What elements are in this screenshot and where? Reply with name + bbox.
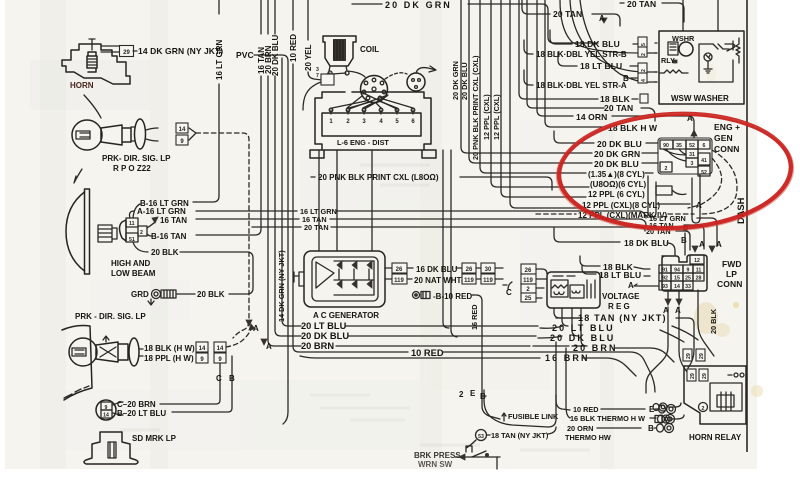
svg-text:20 BRN: 20 BRN bbox=[301, 341, 334, 351]
svg-text:16 LT GRN: 16 LT GRN bbox=[215, 39, 224, 80]
plug terminals bbox=[329, 108, 333, 112]
svg-text:14: 14 bbox=[199, 346, 206, 352]
wire 20 YEL vertical bbox=[308, 0, 322, 80]
horn body bbox=[62, 44, 130, 84]
svg-text:12 PPL (6 CYL): 12 PPL (6 CYL) bbox=[588, 190, 645, 199]
svg-text:12 PPL (CXL): 12 PPL (CXL) bbox=[492, 94, 501, 140]
wire 20 TAN long bbox=[252, 226, 301, 228]
svg-text:26: 26 bbox=[466, 267, 473, 273]
terminal boxes 14 / 9 bbox=[176, 123, 188, 133]
sd mrk connector circle bbox=[96, 400, 116, 420]
svg-text:16 DK BLU: 16 DK BLU bbox=[416, 265, 458, 274]
wire 16 BRN long bbox=[300, 356, 540, 358]
spark plug wires fanning bbox=[332, 99, 413, 108]
node dot junction bbox=[482, 390, 548, 427]
svg-text:FWD: FWD bbox=[722, 259, 742, 269]
contact points bbox=[713, 44, 729, 49]
wires down from fwd conn bbox=[646, 307, 668, 393]
svg-text:A: A bbox=[696, 201, 702, 210]
inline fuse B-10 RED bbox=[413, 292, 420, 299]
curves feeding 29 boxes bbox=[660, 326, 698, 342]
distributor cap bbox=[361, 76, 388, 103]
svg-text:18 DK BLU: 18 DK BLU bbox=[575, 39, 620, 49]
svg-text:14: 14 bbox=[179, 127, 186, 133]
wire to 20 TAN row bbox=[527, 0, 604, 108]
generator terminal lug left bbox=[294, 272, 304, 286]
relay inner contact box bbox=[710, 383, 742, 411]
svg-text:COIL: COIL bbox=[360, 45, 379, 54]
voltage reg box bbox=[547, 272, 600, 308]
leader from horn to park lamp bbox=[84, 95, 101, 118]
svg-text:14: 14 bbox=[674, 284, 680, 290]
svg-text:16 BLK THERMO H W: 16 BLK THERMO H W bbox=[570, 414, 645, 423]
conn pigtail bracket bbox=[648, 174, 700, 223]
svg-text:L-6 ENG - DIST: L-6 ENG - DIST bbox=[337, 138, 389, 147]
wire right pair verticals bbox=[443, 150, 449, 328]
wire 20 DK BLU vertical bbox=[275, 0, 301, 336]
reflector inner block bbox=[98, 225, 117, 242]
cell 12 bbox=[690, 255, 704, 264]
relay coil bbox=[717, 395, 734, 407]
annotation red ellipse bbox=[554, 108, 796, 235]
svg-text:20 LT BLU: 20 LT BLU bbox=[552, 323, 615, 333]
svg-text:ENG +: ENG + bbox=[714, 122, 740, 132]
svg-text:18 BLK (H W): 18 BLK (H W) bbox=[144, 344, 195, 353]
connector boxes 29 29 above horn relay bbox=[683, 349, 692, 361]
svg-text:29: 29 bbox=[686, 353, 692, 359]
svg-text:A: A bbox=[599, 14, 605, 23]
wire 20 LT BLU inner vertical bbox=[282, 58, 301, 326]
wire 18 TAN NY JKT row bbox=[556, 317, 582, 319]
svg-text:HIGH AND: HIGH AND bbox=[111, 259, 150, 268]
wire 20 TAN top-right corner bbox=[620, 2, 624, 4]
svg-text:18 TAN (NY JKT): 18 TAN (NY JKT) bbox=[491, 431, 549, 440]
wire 20 PNK BLK PRINT CXL L80 bbox=[311, 176, 315, 178]
svg-text:PRK - DIR. SIG. LP: PRK - DIR. SIG. LP bbox=[75, 312, 146, 321]
svg-text:A: A bbox=[716, 240, 722, 249]
svg-text:20 ORN: 20 ORN bbox=[567, 424, 593, 433]
svg-text:5: 5 bbox=[641, 43, 647, 46]
svg-text:51: 51 bbox=[129, 237, 135, 243]
svg-text:20 YEL: 20 YEL bbox=[304, 44, 313, 71]
node A arrowhead on dashed bbox=[246, 320, 252, 326]
svg-text:E: E bbox=[470, 389, 476, 398]
svg-text:HORN RELAY: HORN RELAY bbox=[689, 433, 742, 442]
sd mrk lamp body bbox=[84, 432, 138, 464]
diode bridge bbox=[337, 261, 372, 269]
svg-text:R P O Z22: R P O Z22 bbox=[113, 164, 151, 173]
leader tick bbox=[74, 169, 82, 183]
stator fan bbox=[316, 262, 334, 288]
dashed harness run to the right bbox=[196, 133, 249, 338]
svg-text:29: 29 bbox=[702, 373, 708, 379]
node A above conn bbox=[691, 130, 697, 136]
svg-text:14 DK GRN (NY JKT): 14 DK GRN (NY JKT) bbox=[277, 250, 286, 322]
svg-text:12: 12 bbox=[694, 258, 700, 264]
svg-text:CONN: CONN bbox=[714, 144, 739, 154]
svg-text:30: 30 bbox=[485, 267, 492, 273]
node A top bbox=[601, 18, 607, 23]
oil pressure sender circle bbox=[407, 73, 425, 91]
wire coil to distributor bbox=[347, 71, 365, 77]
svg-text:20 DK GRN: 20 DK GRN bbox=[451, 61, 460, 100]
svg-text:2: 2 bbox=[702, 406, 705, 412]
svg-text:119: 119 bbox=[464, 278, 474, 284]
svg-text:20 DK BLU: 20 DK BLU bbox=[271, 34, 280, 76]
svg-text:C–20 BRN: C–20 BRN bbox=[117, 400, 156, 409]
svg-text:18 TAN (NY JKT): 18 TAN (NY JKT) bbox=[578, 313, 667, 323]
connector pair 26/119 bbox=[392, 263, 407, 273]
svg-text:18 DK BLU: 18 DK BLU bbox=[624, 238, 669, 248]
coil body bbox=[323, 36, 356, 66]
wire 16 TAN w/ A arrow bbox=[147, 222, 155, 228]
svg-text:LP: LP bbox=[726, 269, 737, 279]
node A flags above fwd bbox=[692, 246, 698, 252]
svg-text:WSW WASHER: WSW WASHER bbox=[671, 94, 729, 103]
svg-text:31: 31 bbox=[689, 152, 695, 158]
wire PVC to 14 DK GRN vertical bbox=[254, 55, 288, 424]
svg-text:12 PPL (CXL)(8 CYL): 12 PPL (CXL)(8 CYL) bbox=[582, 201, 660, 210]
svg-text:26: 26 bbox=[525, 268, 532, 274]
svg-text:3: 3 bbox=[691, 161, 694, 167]
wire 16 DK BLU bbox=[408, 267, 413, 269]
svg-text:11: 11 bbox=[129, 221, 135, 227]
svg-text:HORN: HORN bbox=[70, 81, 94, 90]
engine terminal strip bbox=[322, 113, 421, 136]
horn terminal post bbox=[89, 39, 95, 50]
svg-text:GRD: GRD bbox=[131, 290, 149, 299]
connector pair mid bbox=[462, 263, 476, 273]
svg-text:18 PPL (H W): 18 PPL (H W) bbox=[144, 354, 194, 363]
wire 20 BRN vertical bbox=[268, 0, 301, 346]
svg-text:20 DK BLU: 20 DK BLU bbox=[597, 139, 642, 149]
svg-text:20 PNK BLK PRINT CXL (L8OΩ): 20 PNK BLK PRINT CXL (L8OΩ) bbox=[318, 173, 439, 182]
wire 16 LT GRN vertical bbox=[196, 0, 219, 202]
wire B-16 LT GRN bbox=[133, 204, 140, 218]
wire to 14 ORN row bbox=[537, 0, 573, 116]
wire label 14 DK GRN bbox=[133, 50, 137, 52]
svg-text:20 NAT WHT-: 20 NAT WHT- bbox=[414, 276, 464, 285]
park bulb bbox=[69, 338, 97, 366]
svg-text:14 DK GRN (NY JKT): 14 DK GRN (NY JKT) bbox=[138, 46, 223, 56]
wires between pairs bbox=[476, 268, 503, 279]
ground lug symbol bbox=[152, 290, 161, 299]
svg-text:GEN: GEN bbox=[714, 133, 733, 143]
svg-text:29: 29 bbox=[690, 373, 696, 379]
A A flags under fwd conn bbox=[667, 291, 669, 305]
svg-text:(1.35▲)(8 CYL): (1.35▲)(8 CYL) bbox=[588, 170, 645, 179]
wire A-16 LT GRN bbox=[130, 211, 135, 218]
svg-text:41: 41 bbox=[701, 158, 707, 164]
svg-text:-B-10 RED: -B-10 RED bbox=[433, 292, 472, 301]
svg-text:14: 14 bbox=[103, 413, 109, 419]
svg-text:FUSIBLE LINK: FUSIBLE LINK bbox=[508, 412, 559, 421]
svg-text:2: 2 bbox=[641, 69, 647, 72]
wsw input pins bbox=[655, 43, 657, 82]
resistor right bbox=[736, 41, 740, 59]
wire eng to gen 1 bbox=[318, 150, 320, 251]
bulb socket bbox=[96, 342, 128, 362]
svg-text:7: 7 bbox=[316, 73, 319, 79]
wire to 18 BLK row bbox=[519, 0, 598, 99]
svg-text:20 LT BLU: 20 LT BLU bbox=[301, 321, 347, 331]
fwd lp conn outline bbox=[662, 255, 707, 291]
node A flag mid-left bbox=[261, 339, 267, 345]
svg-text:16 TAN: 16 TAN bbox=[160, 216, 187, 225]
svg-text:2: 2 bbox=[459, 390, 464, 399]
socket spring bbox=[100, 347, 116, 357]
svg-text:A: A bbox=[266, 342, 272, 351]
wire C-20 BRN bbox=[113, 402, 123, 405]
gen output pins bbox=[385, 268, 392, 279]
svg-text:R E G: R E G bbox=[608, 302, 630, 311]
wsw washer box bbox=[659, 31, 744, 104]
wire 20 DK GRN top horizontal bbox=[352, 3, 382, 5]
wire 12 PPL CXL 8CYL vertical bbox=[510, 0, 580, 208]
wire 18 LT BLU bbox=[558, 52, 577, 66]
svg-text:18 LT BLU: 18 LT BLU bbox=[580, 61, 622, 71]
svg-text:B-16 TAN: B-16 TAN bbox=[151, 232, 187, 241]
coil winding dark bar bbox=[333, 39, 346, 61]
relay coil bbox=[664, 70, 682, 73]
wire 18 BLK DBL YEL STR-A bbox=[524, 70, 533, 85]
svg-text:2: 2 bbox=[140, 230, 143, 236]
label FUSIBLE LINK bbox=[502, 413, 506, 421]
svg-text:A C GENERATOR: A C GENERATOR bbox=[313, 311, 379, 320]
wire 20 DK BLU vertical bbox=[469, 0, 592, 163]
connector stack x522 bbox=[521, 264, 536, 274]
wire from 53 down to switch bbox=[466, 440, 476, 448]
svg-text:28: 28 bbox=[696, 276, 702, 282]
eng gen connector grid bbox=[658, 138, 712, 174]
svg-text:PVC: PVC bbox=[236, 50, 254, 60]
svg-text:52: 52 bbox=[689, 143, 695, 149]
wire eng to gen 3 bbox=[371, 150, 373, 251]
svg-text:20 BLK: 20 BLK bbox=[709, 308, 718, 334]
wire 20 PNK BLK PRINT CXL vertical bbox=[480, 0, 586, 173]
dash line bbox=[746, 0, 748, 452]
wires connector to coil bbox=[327, 73, 346, 74]
svg-text:12 PPL (CXL): 12 PPL (CXL) bbox=[482, 94, 491, 140]
fusible link brace bbox=[548, 395, 556, 427]
harness to A node dashed bbox=[226, 327, 252, 347]
svg-text:A: A bbox=[675, 306, 681, 315]
svg-text:6: 6 bbox=[703, 143, 706, 149]
svg-text:LOW BEAM: LOW BEAM bbox=[111, 269, 156, 278]
svg-text:A: A bbox=[628, 281, 634, 290]
connector pair right bbox=[481, 263, 495, 273]
svg-text:20 TAN: 20 TAN bbox=[604, 103, 633, 113]
svg-text:29: 29 bbox=[123, 50, 130, 56]
wire to 18 BLK HW row bbox=[545, 0, 607, 127]
wires stack to reg bbox=[536, 269, 547, 298]
wire 12 PPL CXL vertical bbox=[491, 0, 589, 187]
wire 18 BLK HW bbox=[139, 348, 143, 350]
node A into fwd bbox=[634, 284, 648, 286]
prk dir sig lp bulb bbox=[72, 120, 102, 150]
svg-text:VOLTAGE: VOLTAGE bbox=[602, 292, 640, 301]
svg-text:20 TAN: 20 TAN bbox=[304, 223, 329, 232]
sender wire with arrow bbox=[416, 66, 436, 73]
reg bottom pins bbox=[554, 308, 582, 318]
svg-text:10 RED: 10 RED bbox=[411, 348, 444, 358]
reg internals bbox=[551, 280, 568, 297]
wire 12 PPL CXL MARK IV dashed bbox=[536, 213, 576, 215]
headlamp reflector arc bbox=[66, 192, 85, 271]
inner circuit bbox=[699, 41, 735, 82]
conn internal wires bbox=[663, 149, 686, 161]
wire 12 PPL vertical bbox=[501, 0, 586, 197]
wire 20 BLK bbox=[133, 242, 148, 252]
connector box 29 bbox=[120, 46, 134, 57]
svg-text:93: 93 bbox=[662, 284, 668, 290]
svg-text:20 DK BLU: 20 DK BLU bbox=[594, 159, 639, 169]
socket disc bbox=[135, 119, 146, 149]
wires C and B down bbox=[220, 356, 232, 400]
svg-text:29: 29 bbox=[699, 353, 705, 359]
wire from connector down-left bbox=[303, 82, 321, 110]
fender bracket bbox=[62, 326, 92, 401]
svg-text:SD MRK LP: SD MRK LP bbox=[132, 434, 177, 443]
svg-text:25: 25 bbox=[525, 296, 532, 302]
svg-text:52: 52 bbox=[701, 170, 707, 176]
svg-text:C: C bbox=[506, 288, 512, 297]
svg-text:2: 2 bbox=[665, 166, 668, 172]
svg-text:20 DK GRN: 20 DK GRN bbox=[594, 149, 640, 159]
headlamp lens bar bbox=[85, 189, 90, 274]
wire 18 PPL HW bbox=[139, 355, 143, 357]
svg-text:A: A bbox=[699, 240, 705, 249]
svg-text:90: 90 bbox=[663, 143, 669, 149]
wire 20 DK GRN vertical bbox=[461, 0, 592, 153]
wire 20 TAN top bracket bbox=[522, 0, 550, 14]
wire top feed to wsw bbox=[683, 0, 718, 31]
wire 10 red down bbox=[472, 295, 500, 419]
svg-text:4: 4 bbox=[641, 79, 647, 82]
coil terminals bbox=[328, 66, 349, 75]
svg-text:20 DK BLU: 20 DK BLU bbox=[460, 62, 469, 100]
svg-text:C: C bbox=[216, 374, 222, 383]
wire 18 DK BLU bbox=[550, 30, 572, 44]
wire horn feed bbox=[101, 46, 119, 52]
fwd grid rows bbox=[659, 265, 671, 273]
connector boxes left of wsw bbox=[638, 37, 647, 47]
svg-text:B: B bbox=[681, 236, 687, 245]
wire 18 BLK fwd bbox=[580, 256, 600, 266]
svg-text:2: 2 bbox=[641, 53, 647, 56]
ac generator outer case bbox=[304, 251, 385, 307]
svg-text:53: 53 bbox=[478, 434, 484, 440]
scan mottle bbox=[30, 60, 560, 450]
label 18 TAN NY JKT bottom bbox=[487, 434, 490, 436]
wire 18 DK BLU fwd bbox=[554, 228, 620, 242]
svg-text:A-16 LT GRN: A-16 LT GRN bbox=[137, 207, 186, 216]
svg-text:20 DK GRN: 20 DK GRN bbox=[385, 0, 452, 10]
svg-text:18 LT BLU: 18 LT BLU bbox=[599, 270, 641, 280]
svg-text:BRK PRESS: BRK PRESS bbox=[414, 451, 461, 460]
svg-text:B–20 LT BLU: B–20 LT BLU bbox=[117, 409, 166, 418]
wire 20 DK BLU row1 bbox=[554, 131, 594, 143]
wire B-16 TAN bbox=[147, 234, 151, 236]
relay pigtail circles bbox=[728, 374, 732, 376]
svg-text:20 TAN: 20 TAN bbox=[627, 0, 656, 9]
wire 20 BLK to grd bbox=[177, 293, 195, 295]
svg-text:20 DK BLU: 20 DK BLU bbox=[301, 331, 349, 341]
svg-text:14: 14 bbox=[217, 346, 224, 352]
engine block outline bbox=[310, 92, 436, 158]
svg-text:CONN: CONN bbox=[717, 279, 742, 289]
stain blobs bbox=[694, 302, 718, 334]
svg-text:26: 26 bbox=[396, 267, 403, 273]
svg-text:18 BLK·DBL YEL STR-B: 18 BLK·DBL YEL STR-B bbox=[536, 50, 627, 59]
wire 20 NAT WHT bbox=[408, 278, 412, 280]
svg-text:20 TAN: 20 TAN bbox=[553, 9, 582, 19]
svg-text:(U8OΩ)(6 CYL): (U8OΩ)(6 CYL) bbox=[590, 180, 647, 189]
terminal 2 circle bbox=[699, 403, 708, 412]
svg-text:119: 119 bbox=[483, 278, 493, 284]
wire eng to gen 2 bbox=[336, 150, 338, 251]
curves from top into WSW pins bbox=[560, 0, 657, 53]
svg-text:119: 119 bbox=[394, 278, 404, 284]
svg-text:THERMO HW: THERMO HW bbox=[565, 433, 611, 442]
wire B-20 LT BLU bbox=[113, 413, 123, 415]
circled 53 connector bbox=[476, 430, 487, 441]
svg-text:20 DK BLU: 20 DK BLU bbox=[550, 333, 615, 343]
wire 16 LT GRN long bbox=[196, 210, 297, 212]
svg-text:14 ORN: 14 ORN bbox=[576, 112, 607, 122]
distributor to block wire right bbox=[385, 73, 407, 79]
switch symbol bbox=[455, 456, 500, 458]
wire 18 LT BLU fwd bbox=[582, 266, 596, 274]
relay left inline connectors bbox=[659, 403, 667, 411]
svg-text:PRK- DIR. SIG. LP: PRK- DIR. SIG. LP bbox=[102, 154, 171, 163]
horn diaphragm element bbox=[87, 52, 97, 72]
terminal arrow bbox=[103, 336, 109, 342]
svg-text:20 PNK BLK PRINT CXL (CXL): 20 PNK BLK PRINT CXL (CXL) bbox=[471, 55, 480, 160]
svg-text:119: 119 bbox=[523, 278, 533, 284]
svg-text:B: B bbox=[229, 374, 235, 383]
relay boxes 29 29 inside bbox=[687, 369, 696, 381]
svg-text:35: 35 bbox=[676, 143, 682, 149]
dashed fan from conn bbox=[700, 150, 737, 214]
headlamp connector body bbox=[120, 220, 127, 241]
svg-text:10 RED: 10 RED bbox=[573, 405, 599, 414]
svg-text:B: B bbox=[648, 424, 654, 433]
svg-text:WRN SW: WRN SW bbox=[418, 460, 453, 469]
svg-text:33: 33 bbox=[685, 284, 691, 290]
bulb socket bbox=[101, 125, 131, 145]
wires from 555/565 verticals to rows bbox=[556, 342, 570, 418]
svg-text:20 BLK: 20 BLK bbox=[151, 248, 179, 257]
socket disc bbox=[129, 338, 139, 366]
svg-text:18 BLK·DBL YEL STR-A: 18 BLK·DBL YEL STR-A bbox=[536, 81, 627, 90]
arrow to harness bbox=[189, 128, 196, 140]
wire 16 TAN long bbox=[196, 218, 299, 220]
svg-text:10 RED: 10 RED bbox=[289, 34, 298, 62]
svg-text:20 BLK: 20 BLK bbox=[197, 290, 225, 299]
horn relay outline bbox=[684, 366, 746, 424]
ground arrow bbox=[148, 299, 154, 305]
wire 10 RED vertical bbox=[293, 0, 408, 352]
wire 18 BLK DBL YEL STR-B bbox=[524, 40, 533, 54]
node C bbox=[503, 284, 507, 286]
coil primary connector bbox=[321, 74, 334, 85]
wire 16 TAN vertical bbox=[196, 0, 261, 235]
